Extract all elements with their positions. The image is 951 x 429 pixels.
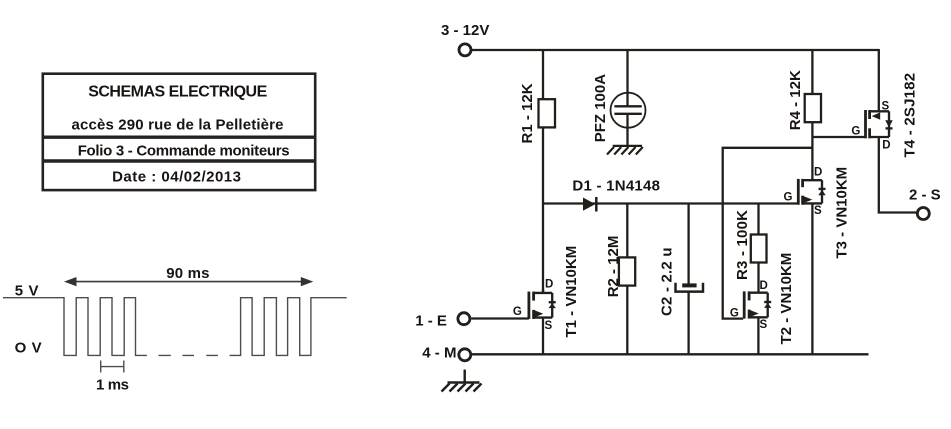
svg-text:R2 - 12M: R2 - 12M xyxy=(605,236,622,298)
svg-text:G: G xyxy=(730,307,739,319)
svg-text:T3 - VN10KM: T3 - VN10KM xyxy=(833,167,850,259)
svg-text:D: D xyxy=(882,140,890,152)
svg-text:Folio 3 - Commande moniteurs: Folio 3 - Commande moniteurs xyxy=(78,143,290,160)
svg-text:T1 - VN10KM: T1 - VN10KM xyxy=(563,246,580,338)
svg-text:S: S xyxy=(882,101,890,113)
svg-text:R3 - 100K: R3 - 100K xyxy=(734,210,751,280)
svg-text:D: D xyxy=(760,280,768,292)
svg-text:T4 - 2SJ182: T4 - 2SJ182 xyxy=(902,73,919,158)
svg-text:1 ms: 1 ms xyxy=(96,377,129,394)
svg-text:R4 - 12K: R4 - 12K xyxy=(787,70,804,130)
svg-text:2 - S: 2 - S xyxy=(909,187,941,204)
svg-text:D1 - 1N4148: D1 - 1N4148 xyxy=(572,178,660,195)
svg-text:S: S xyxy=(545,320,553,332)
svg-text:SCHEMAS ELECTRIQUE: SCHEMAS ELECTRIQUE xyxy=(88,84,267,101)
svg-text:90 ms: 90 ms xyxy=(166,265,210,282)
svg-text:accès 290 rue de la Pelletière: accès 290 rue de la Pelletière xyxy=(72,117,284,134)
svg-text:S: S xyxy=(814,205,822,217)
svg-text:O V: O V xyxy=(15,340,43,357)
svg-text:D: D xyxy=(814,166,822,178)
svg-text:R1 - 12K: R1 - 12K xyxy=(519,83,536,143)
svg-text:T2 - VN10KM: T2 - VN10KM xyxy=(778,253,795,345)
svg-text:C2 - 2.2 u: C2 - 2.2 u xyxy=(659,247,676,316)
svg-text:PFZ 100A: PFZ 100A xyxy=(592,74,609,143)
svg-text:4 - M: 4 - M xyxy=(422,345,456,362)
svg-text:5 V: 5 V xyxy=(15,283,39,300)
svg-text:S: S xyxy=(760,319,768,331)
svg-text:G: G xyxy=(851,126,860,138)
svg-text:D: D xyxy=(545,279,553,291)
svg-text:G: G xyxy=(513,306,522,318)
svg-text:G: G xyxy=(783,192,792,204)
svg-text:1 - E: 1 - E xyxy=(415,313,447,330)
svg-text:3 - 12V: 3 - 12V xyxy=(441,22,489,39)
svg-text:Date : 04/02/2013: Date : 04/02/2013 xyxy=(112,169,241,186)
